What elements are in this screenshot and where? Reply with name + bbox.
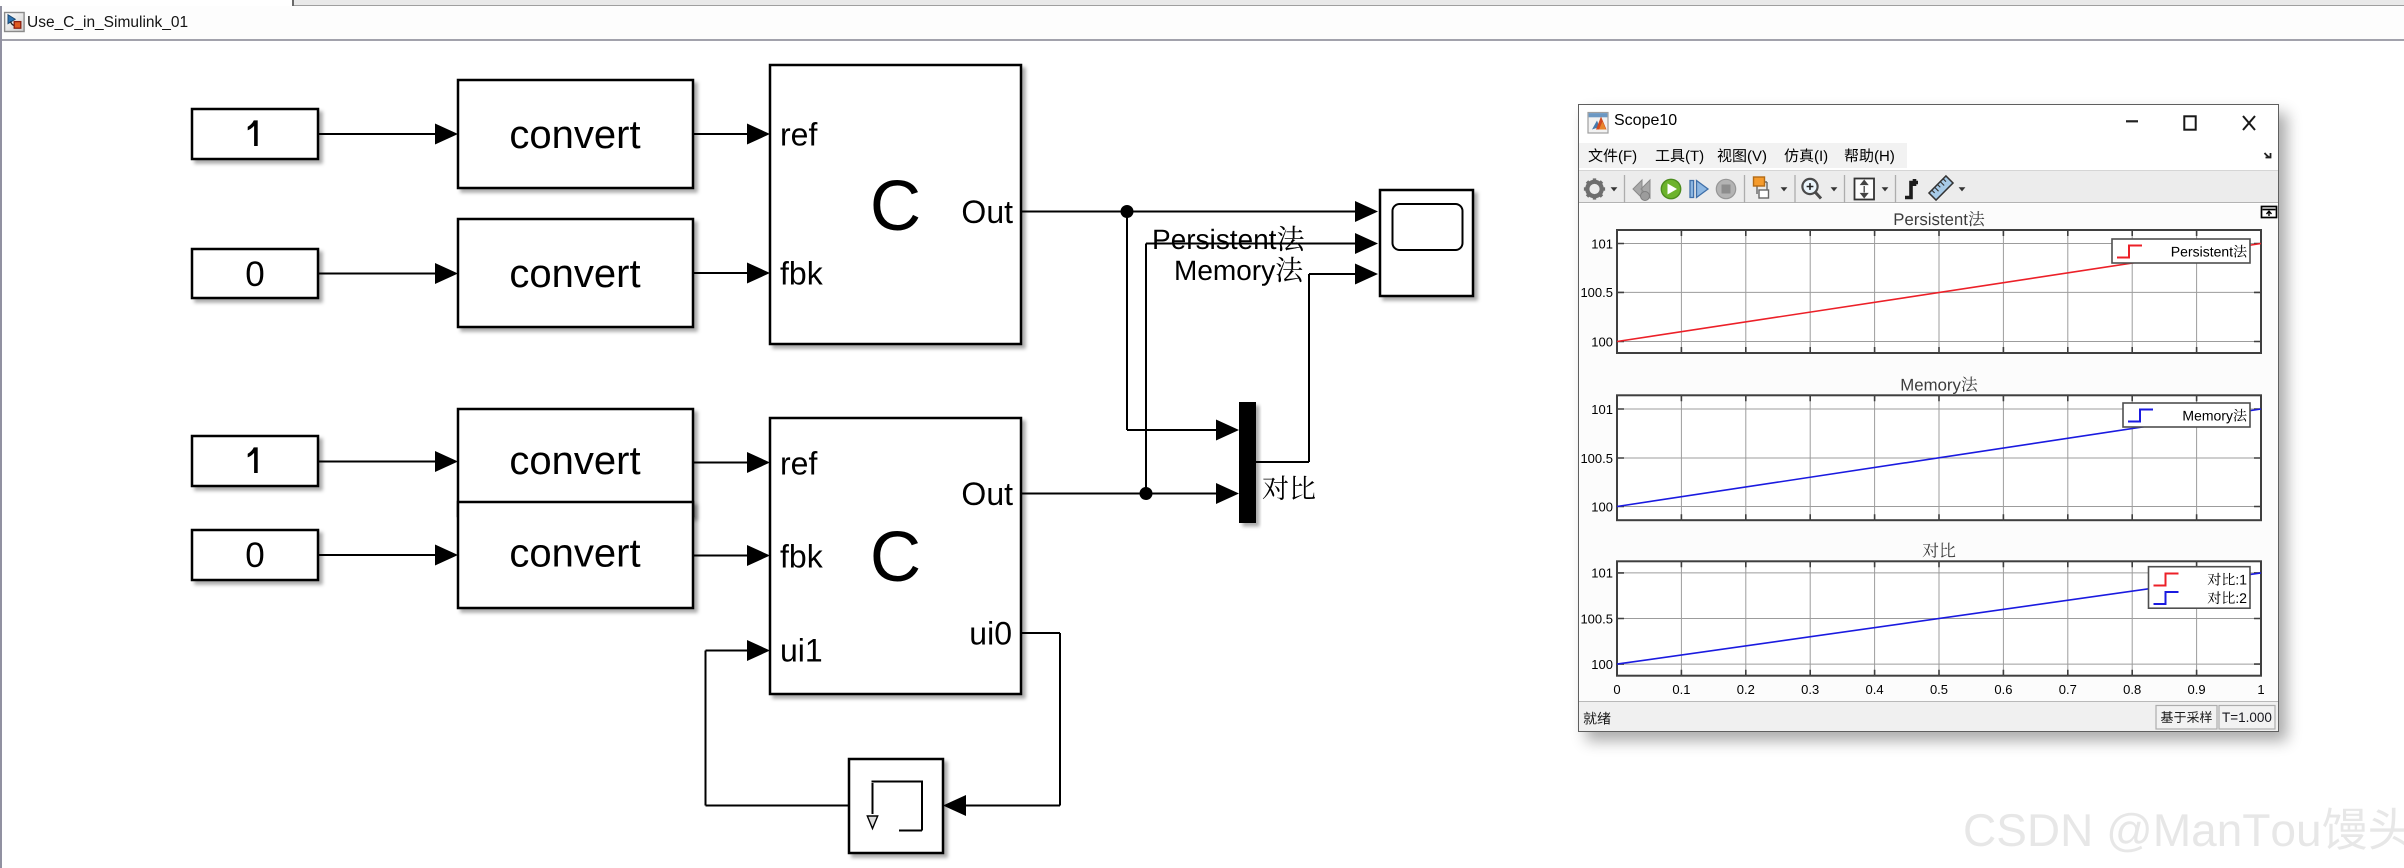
- wire C2 ui0 to Memory input: [1021, 632, 1060, 634]
- menu highlight strip: [1579, 143, 1907, 169]
- scope plot 1 axes: [1617, 230, 2261, 353]
- block C Caller U1 (Persistent method): [770, 65, 1021, 344]
- svg-text:C: C: [870, 167, 921, 246]
- separator under breadcrumb: [0, 39, 2404, 41]
- scope plot title Persistent法: [1895, 211, 1985, 226]
- block Constant value 1 (bottom): [192, 436, 318, 486]
- svg-text:convert: convert: [509, 532, 640, 576]
- block Data Type Conversion "convert" (bottom ref): [458, 409, 693, 516]
- wire Mux out to Scope in3 (Memory): [1256, 461, 1309, 463]
- wire const0(bot) to convert(bot fbk): [318, 554, 440, 556]
- block Constant value 1 (top): [192, 109, 318, 159]
- svg-text:0: 0: [245, 255, 264, 294]
- svg-text:0: 0: [1613, 682, 1620, 697]
- scope window minimize button: [2126, 120, 2138, 122]
- block Constant value 0 (bottom): [192, 530, 318, 580]
- block Constant value 0 (top): [192, 249, 318, 298]
- toolbar icon: highlight simulink block: [1757, 182, 1767, 194]
- wire Memory output to C2 ui1: [706, 805, 850, 807]
- signal label 对比 (mux name): [1263, 476, 1315, 501]
- toolbar icon: zoom: [1802, 179, 1817, 194]
- junction node on C2 Out: [1140, 487, 1153, 500]
- svg-text:0.6: 0.6: [1994, 682, 2012, 697]
- svg-text:fbk: fbk: [780, 256, 824, 292]
- block Data Type Conversion "convert" (top fbk): [458, 219, 693, 327]
- svg-text:0.5: 0.5: [1930, 682, 1948, 697]
- toolbar icon: step forward: [1690, 181, 1694, 198]
- toolbar icon: stop (disabled): [1716, 179, 1735, 198]
- wire const0(top) to convert(top fbk): [318, 273, 440, 275]
- scope dock arrow: [2265, 153, 2271, 158]
- svg-text:0.9: 0.9: [2188, 682, 2206, 697]
- scope window maximize button: [2184, 116, 2195, 129]
- status bar: [1579, 701, 2278, 732]
- scope status text 就绪: [1584, 712, 1611, 725]
- toolbar icon: run (green play): [1661, 179, 1680, 198]
- svg-text:Out: Out: [961, 194, 1013, 230]
- wire convert(top ref) to C1 ref: [693, 133, 752, 135]
- simulink model icon: [5, 13, 25, 32]
- wire branch C2 Out up to Scope in2 (Persistent): [1145, 244, 1147, 494]
- scope plot title 对比: [1923, 543, 1956, 558]
- scope legend 2 (Memory法): [2123, 403, 2250, 427]
- toolbar icon: configuration gear: [1587, 182, 1601, 196]
- wire const1(top) to convert(top ref): [318, 133, 440, 135]
- svg-text:fbk: fbk: [780, 539, 824, 575]
- svg-text:ui1: ui1: [780, 633, 823, 669]
- svg-text:100.5: 100.5: [1580, 285, 1613, 300]
- svg-text:0.4: 0.4: [1866, 682, 1884, 697]
- svg-text:T=1.000: T=1.000: [2222, 710, 2272, 725]
- junction node on C1 Out: [1121, 205, 1134, 218]
- block Memory (unit delay feedback): [849, 759, 943, 853]
- svg-text:100: 100: [1591, 334, 1613, 349]
- wire convert(bot ref) to C2 ref: [693, 462, 752, 464]
- svg-text:ref: ref: [780, 446, 817, 482]
- svg-text:101: 101: [1591, 236, 1613, 251]
- scope status box T=1.000: [2219, 706, 2275, 730]
- canvas: [1579, 204, 2278, 701]
- block Data Type Conversion "convert" (top ref): [458, 80, 693, 188]
- wire const1(bot) to convert(bot ref): [318, 461, 440, 463]
- signal label Memory法: [1176, 257, 1302, 286]
- toolbar strip: [1579, 170, 2278, 203]
- wire C1 Out to Scope in1: [1021, 211, 1360, 213]
- scope plot 3 axes: [1617, 561, 2261, 675]
- svg-text:101: 101: [1591, 402, 1613, 417]
- svg-text:0.3: 0.3: [1801, 682, 1819, 697]
- breadcrumb bar with model name: [0, 6, 2404, 39]
- svg-text:100: 100: [1591, 657, 1613, 672]
- scope legend 3 (对比:1 对比:2): [2149, 567, 2251, 609]
- block Data Type Conversion "convert" (bottom fbk): [458, 502, 693, 608]
- scope legend 1 (Persistent法): [2112, 239, 2250, 263]
- svg-text:convert: convert: [509, 439, 640, 483]
- svg-text:1: 1: [2257, 682, 2264, 697]
- watermark CSDN @ManTou馒头: [1965, 808, 2404, 853]
- toolbar icon: scale y-axis: [1855, 179, 1875, 200]
- svg-text:ui0: ui0: [969, 616, 1012, 652]
- scope menu labels: [1589, 148, 1637, 164]
- svg-text:convert: convert: [509, 252, 640, 296]
- svg-text:Out: Out: [961, 476, 1013, 512]
- wire branch C1 Out down to Mux in1: [1126, 212, 1128, 431]
- wire convert(bot fbk) to C2 fbk: [693, 555, 752, 557]
- svg-text:0: 0: [245, 536, 264, 575]
- svg-text:0.7: 0.7: [2059, 682, 2077, 697]
- scope window close button: [2243, 116, 2255, 130]
- svg-text:100.5: 100.5: [1580, 451, 1613, 466]
- block Mux 对比 (black bar): [1239, 402, 1256, 523]
- svg-text:100: 100: [1591, 499, 1613, 514]
- toolbar icon: cursor measurements (ruler): [1929, 176, 1953, 200]
- svg-text:C: C: [870, 518, 921, 597]
- scope plot title Memory法: [1902, 377, 1978, 395]
- editor tab strip: [0, 0, 2404, 6]
- svg-text:101: 101: [1591, 566, 1613, 581]
- wire C2 Out to Mux in2: [1021, 493, 1221, 495]
- signal label Persistent法: [1154, 226, 1303, 252]
- svg-text:0.2: 0.2: [1737, 682, 1755, 697]
- block Scope: [1380, 190, 1473, 296]
- scope float icon: [2262, 207, 2277, 218]
- editor left border: [0, 6, 2, 868]
- svg-text:0.1: 0.1: [1672, 682, 1690, 697]
- toolbar icon: step back (disabled): [1633, 180, 1650, 198]
- svg-text:ref: ref: [780, 117, 817, 153]
- scope window titlebar icon (MATLAB): [1588, 113, 1608, 134]
- svg-text:0.8: 0.8: [2123, 682, 2141, 697]
- wire convert(top fbk) to C1 fbk: [693, 272, 752, 274]
- toolbar icon: trigger: [1905, 179, 1918, 198]
- scope status box 基于采样: [2156, 706, 2217, 730]
- block C Caller U2 (Memory method): [770, 418, 1021, 694]
- svg-text:100.5: 100.5: [1580, 611, 1613, 626]
- svg-text:convert: convert: [509, 113, 640, 157]
- scope plot 2 axes: [1617, 395, 2261, 520]
